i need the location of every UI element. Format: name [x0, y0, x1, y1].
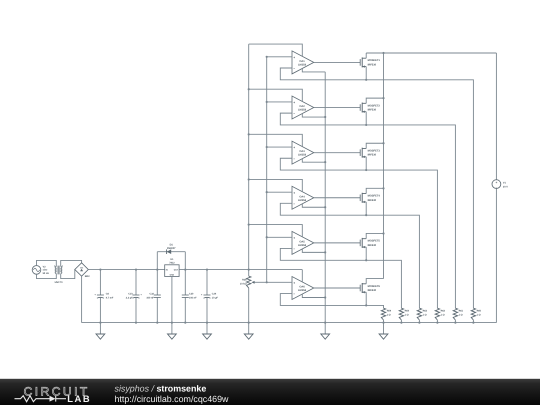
svg-text:10 µF: 10 µF — [212, 297, 219, 300]
svg-text:2.2 µF: 2.2 µF — [126, 297, 133, 300]
svg-text:IRF530: IRF530 — [368, 289, 377, 292]
wire reference to op-amp OA6 + input — [267, 281, 292, 283]
svg-text:R61: R61 — [459, 310, 464, 313]
svg-text:IRF530: IRF530 — [368, 109, 377, 112]
wire op-amp OA2 feedback (- input to source sense node) — [280, 113, 455, 308]
svg-text:7812: 7812 — [169, 262, 175, 265]
capacitor C30 100nF — [182, 269, 197, 324]
wire bridge negative to ground rail — [81, 276, 83, 322]
wire op-amp OA4 feedback (- input to source sense node) — [280, 203, 419, 308]
op-amp V- ground bus — [324, 72, 326, 324]
wire +12V feed to op-amp OA5 V+ pin — [248, 223, 303, 236]
svg-text:1N4007: 1N4007 — [167, 247, 176, 250]
svg-text:+: + — [293, 236, 295, 240]
transformer TR1 (UNC70) — [54, 265, 63, 283]
svg-text:sisyphos / stromsenke: sisyphos / stromsenke — [115, 384, 207, 394]
ground at U1 — [168, 323, 177, 340]
svg-text:1 Ω: 1 Ω — [477, 314, 481, 317]
wire regulator GND pin to ground rail — [171, 277, 173, 324]
svg-text:30 V: 30 V — [503, 186, 508, 189]
transistor MOSFET5 IRF530 — [360, 238, 380, 248]
wire MOSFET5 source to sense node — [365, 247, 367, 260]
wire +12V feed to op-amp OA2 V+ pin — [248, 88, 303, 101]
wire op-amp OA6 V- pin to ground bus — [302, 294, 326, 299]
capacitor C34 10uF — [201, 269, 219, 324]
wire +12V rail to op-amp OA1 V+ pin (top row) — [249, 44, 303, 56]
wire MOSFET1 drain to drain bus — [365, 53, 367, 58]
ground at R38 — [244, 323, 253, 340]
wire op-amp OA3 feedback (- input to source sense node) — [280, 158, 437, 308]
svg-text:MOSFET4: MOSFET4 — [368, 195, 381, 198]
voltage source V1 30V — [492, 180, 508, 190]
+12V vertical supply bus — [248, 44, 250, 276]
svg-text:LM358: LM358 — [298, 154, 307, 157]
resistor R60 1 Ohm (sense) — [471, 308, 481, 324]
svg-text:BR2: BR2 — [85, 275, 90, 278]
svg-text:LM358: LM358 — [298, 244, 307, 247]
svg-text:IRF530: IRF530 — [368, 244, 377, 247]
resistor R63 1 Ohm (sense) — [417, 308, 427, 324]
svg-text:LM358: LM358 — [298, 63, 307, 66]
wire op-amp OA5 output to MOSFET5 gate — [314, 242, 360, 244]
svg-text:R63: R63 — [423, 310, 428, 313]
capacitor C32 100nF — [146, 269, 160, 324]
bridge rectifier BR2 — [75, 263, 90, 278]
svg-text:R60: R60 — [477, 310, 482, 313]
svg-text:−: − — [293, 112, 295, 116]
svg-text:LAB: LAB — [67, 393, 91, 404]
svg-text:−: − — [293, 292, 295, 296]
svg-text:IRF530: IRF530 — [368, 64, 377, 67]
svg-text:−: − — [293, 202, 295, 206]
wire op-amp OA1 feedback (- input to source sense node) — [280, 68, 473, 308]
wire op-amp OA3 V- pin to ground bus — [302, 159, 326, 164]
svg-text:+: + — [293, 55, 295, 59]
wire transformer secondary to bridge — [61, 260, 82, 278]
ground rail (bottom) — [82, 322, 497, 324]
svg-text:−: − — [293, 67, 295, 71]
svg-text:http://circuitlab.com/cqc469w: http://circuitlab.com/cqc469w — [115, 394, 230, 404]
wire +12V feed to op-amp OA4 V+ pin — [248, 178, 303, 191]
wire MOSFET6 source to sense node — [365, 292, 367, 305]
op-amp OA4 LM358 — [292, 186, 314, 209]
wire V1 column — [495, 53, 497, 323]
svg-text:LM358: LM358 — [298, 199, 307, 202]
wire MOSFET2 source to sense node — [365, 112, 367, 125]
wire reference to op-amp OA1 + input — [266, 56, 292, 58]
wire MOSFET3 source to sense node — [365, 157, 367, 170]
svg-text:100 nF: 100 nF — [146, 297, 154, 300]
svg-text:R59: R59 — [387, 310, 392, 313]
svg-text:4.7 mF: 4.7 mF — [106, 297, 114, 300]
svg-text:50 Hz: 50 Hz — [43, 272, 50, 275]
wire reference to op-amp OA4 + input — [266, 191, 292, 193]
wire MOSFET4 source to sense node — [365, 202, 367, 215]
svg-text:MOSFET2: MOSFET2 — [368, 104, 381, 107]
svg-text:UNC70: UNC70 — [55, 281, 64, 284]
ground at C34 — [203, 323, 212, 340]
transistor MOSFET1 IRF530 — [360, 57, 380, 67]
svg-text:R64: R64 — [405, 310, 410, 313]
svg-text:C10: C10 — [128, 293, 133, 296]
potentiometer R38 10k — [240, 269, 267, 288]
voltage regulator U1 7812 — [165, 258, 179, 276]
wire op-amp OA5 V- pin to ground bus — [302, 249, 326, 254]
wire MOSFET6 drain to drain bus — [366, 279, 383, 284]
svg-text:MOSFET3: MOSFET3 — [368, 149, 381, 152]
svg-text:IRF530: IRF530 — [368, 154, 377, 157]
resistor R62 1 Ohm (sense) — [435, 308, 445, 324]
reference voltage bus (wiper to op-amp + inputs) — [266, 57, 268, 284]
op-amp OA3 LM358 — [292, 141, 314, 164]
wire MOSFET2 drain to drain bus — [366, 97, 384, 103]
common drain bus — [382, 52, 384, 279]
wire R38 bottom to ground rail — [248, 288, 250, 324]
svg-text:10 kΩ: 10 kΩ — [240, 283, 247, 286]
wire MOSFET3 drain to drain bus — [366, 142, 384, 148]
svg-text:1 Ω: 1 Ω — [387, 314, 391, 317]
svg-text:MOSFET1: MOSFET1 — [368, 59, 381, 62]
resistor R59 1 Ohm (sense) — [381, 308, 391, 324]
wire regulator output rail (+12V) — [179, 269, 302, 271]
svg-text:C30: C30 — [189, 293, 194, 296]
svg-text:+: + — [293, 101, 295, 105]
wire reference to op-amp OA2 + input — [266, 101, 292, 103]
svg-text:1 Ω: 1 Ω — [423, 314, 427, 317]
transistor MOSFET4 IRF530 — [360, 193, 380, 203]
svg-text:MOSFET6: MOSFET6 — [368, 285, 381, 288]
wire op-amp OA4 V- pin to ground bus — [302, 204, 326, 209]
svg-text:1 Ω: 1 Ω — [405, 314, 409, 317]
ground at R59 — [379, 323, 388, 340]
svg-text:LM358: LM358 — [298, 109, 307, 112]
wire op-amp OA1 output to MOSFET1 gate — [314, 61, 360, 63]
footer title text — [115, 384, 230, 404]
drain rail to V1 — [366, 52, 496, 54]
wire +12V feed to op-amp OA3 V+ pin — [248, 133, 303, 146]
resistor R64 1 Ohm (sense) — [399, 308, 409, 324]
CircuitLab logo — [15, 384, 92, 404]
wire op-amp OA6 feedback (- input to source sense node) — [280, 294, 383, 309]
ground at C8 — [96, 323, 105, 340]
op-amp OA1 LM358 — [292, 51, 314, 74]
wire op-amp OA1 V- pin to ground bus — [302, 68, 325, 72]
wire op-amp OA6 V+ pin from +12V rail — [301, 270, 303, 282]
svg-text:1 Ω: 1 Ω — [441, 314, 445, 317]
svg-text:IRF530: IRF530 — [368, 199, 377, 202]
wire MOSFET5 drain to drain bus — [366, 232, 384, 238]
ground at op-amp V- bus — [321, 323, 330, 340]
svg-text:1 Ω: 1 Ω — [459, 314, 463, 317]
transistor MOSFET3 IRF530 — [360, 148, 380, 158]
svg-text:−: − — [293, 157, 295, 161]
wire V2 to transformer primary — [37, 260, 57, 278]
svg-text:−: − — [495, 186, 497, 190]
op-amp OA6 LM358 — [292, 277, 314, 300]
svg-text:−: − — [293, 247, 295, 251]
svg-text:GND: GND — [170, 273, 175, 276]
svg-text:R38: R38 — [242, 279, 247, 282]
svg-text:+: + — [293, 146, 295, 150]
resistor R61 1 Ohm (sense) — [453, 308, 463, 324]
svg-text:+: + — [495, 180, 497, 184]
footer bar — [0, 379, 540, 405]
wire op-amp OA2 V- pin to ground bus — [302, 114, 326, 119]
svg-text:+: + — [293, 281, 295, 285]
diode D1 1N4007 (across regulator) — [157, 244, 185, 270]
capacitor C8 4.7mF — [94, 269, 114, 324]
svg-text:C32: C32 — [150, 293, 155, 296]
wire MOSFET4 drain to drain bus — [366, 187, 384, 193]
wire op-amp OA5 feedback (- input to source sense node) — [280, 248, 401, 308]
op-amp OA5 LM358 — [292, 231, 314, 254]
svg-text:MOSFET5: MOSFET5 — [368, 240, 381, 243]
op-amp OA2 LM358 — [292, 96, 314, 119]
transistor MOSFET2 IRF530 — [360, 103, 380, 113]
wire DC supply rail (bridge to regulator input) — [88, 269, 164, 271]
wire MOSFET1 source to sense node — [365, 67, 367, 80]
wire reference to op-amp OA5 + input — [266, 236, 292, 238]
wire op-amp OA2 output to MOSFET2 gate — [314, 107, 360, 109]
svg-text:100 nF: 100 nF — [189, 297, 197, 300]
voltage source V2 (sine 50 Hz) — [32, 265, 49, 275]
capacitor C10 2.2uF — [126, 269, 143, 324]
transistor MOSFET6 IRF530 — [360, 283, 380, 293]
wire reference to op-amp OA3 + input — [266, 146, 292, 148]
svg-text:R62: R62 — [441, 310, 446, 313]
svg-text:+: + — [293, 191, 295, 195]
wire op-amp OA4 output to MOSFET4 gate — [314, 197, 360, 199]
svg-text:LM358: LM358 — [298, 289, 307, 292]
svg-text:C34: C34 — [212, 293, 217, 296]
wire op-amp OA6 output to MOSFET6 gate — [314, 287, 360, 289]
wire op-amp OA3 output to MOSFET3 gate — [314, 152, 360, 154]
